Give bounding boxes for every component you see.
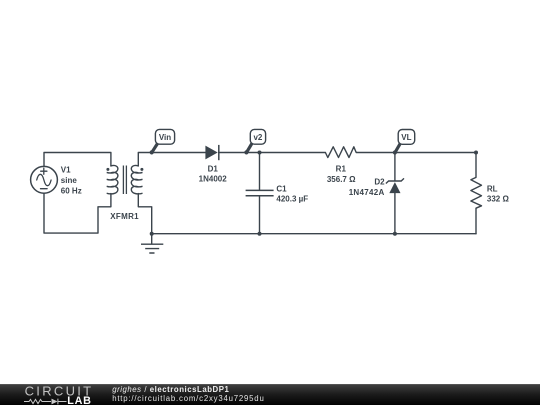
svg-text:60 Hz: 60 Hz [61,187,82,196]
label D2 1N4742A [349,178,385,197]
svg-text:V1: V1 [61,165,71,174]
junction node v2 capacitor tee [258,151,262,155]
ground [141,244,163,253]
transformer XFMR1 secondary coil [131,165,142,193]
wire XFMR1 secondary top to diode D1 [138,153,205,166]
wire v2 node down to capacitor C1 [259,153,261,191]
wire C1 bottom to bottom rail [259,196,261,234]
svg-text:http://circuitlab.com/c2xy34u7: http://circuitlab.com/c2xy34u7295du [112,394,264,403]
node Vin flag [150,129,175,154]
svg-text:356.7 Ω: 356.7 Ω [327,175,356,184]
svg-text:RL: RL [487,185,498,194]
wire ground stub [151,234,153,244]
svg-text:1N4002: 1N4002 [199,174,228,183]
wire V1 top to XFMR1 primary top [44,153,111,167]
svg-text:C1: C1 [276,184,287,193]
wire V1 bottom loop to XFMR1 primary bottom [44,193,111,233]
wire D2 anode to bottom rail [394,193,396,234]
svg-text:1N4742A: 1N4742A [349,188,385,197]
node VL flag [393,130,415,155]
svg-text:D1: D1 [208,164,219,173]
svg-text:XFMR1: XFMR1 [110,212,139,221]
svg-text:grighes / electronicsLabDP1: grighes / electronicsLabDP1 [112,385,229,394]
phase dot secondary [140,168,143,171]
svg-text:R1: R1 [336,165,347,174]
zener diode D2 [386,178,404,193]
junction D2 bottom [393,232,397,236]
wire D1 to R1 [219,152,326,154]
label RL 332 Ohm [487,185,510,204]
diode D1 [205,145,218,160]
svg-text:332 Ω: 332 Ω [487,195,510,204]
label D1 1N4002 [199,164,228,183]
label R1 356.7 Ohm [327,165,356,185]
svg-text:LAB: LAB [67,395,92,405]
svg-text:sine: sine [61,176,78,185]
svg-text:VL: VL [401,133,411,142]
wire R1 to node VL [356,152,476,154]
transformer XFMR1 core [123,166,126,195]
label C1 420.3 uF [276,184,308,203]
svg-text:v2: v2 [253,133,262,142]
junction RL top [474,151,478,155]
svg-text:420.3 µF: 420.3 µF [276,194,308,203]
capacitor C1 [246,190,274,195]
junction ground node [150,232,154,236]
footer bar [0,384,540,405]
label V1 sine 60 Hz [61,165,82,195]
junction C1 bottom [258,232,262,236]
svg-text:Vin: Vin [159,133,171,142]
wire RL bottom [475,208,477,234]
logo doodle wire resistor diode [24,399,67,405]
voltage source V1 [31,166,58,193]
node v2 flag [244,129,265,154]
wire bottom rail [152,233,476,235]
wire XFMR1 secondary bottom to ground node [138,194,151,234]
svg-text:D2: D2 [374,178,385,187]
resistor RL [471,177,482,208]
phase dot primary [106,168,109,171]
resistor R1 [325,147,356,158]
wire VL node down to zener D2 [394,153,396,181]
wire RL top [475,153,477,178]
transformer XFMR1 primary coil [107,165,118,193]
